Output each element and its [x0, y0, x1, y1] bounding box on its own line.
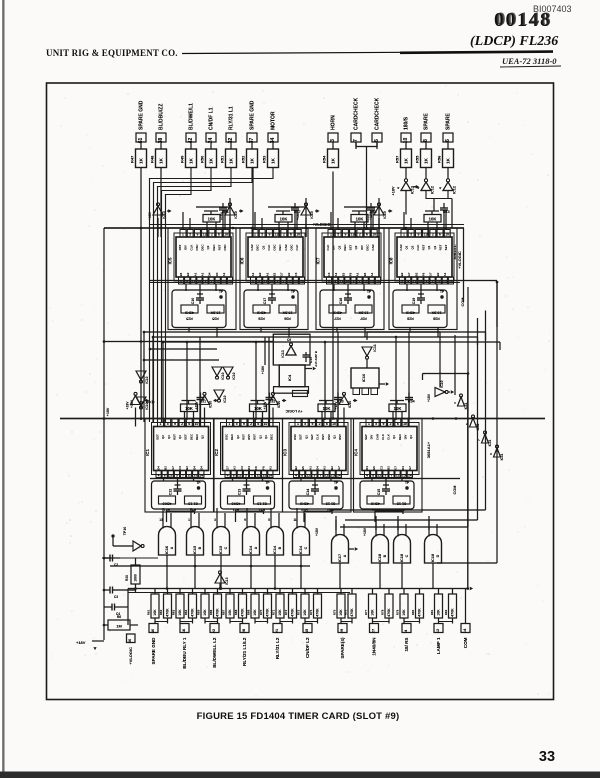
svg-text:OSC: OSC [273, 243, 277, 250]
svg-text:TP10: TP10 [123, 527, 127, 536]
svg-text:CLK: CLK [416, 244, 420, 251]
svg-text:Q2: Q2 [206, 245, 210, 249]
svg-text:IC10: IC10 [234, 211, 238, 219]
svg-text:13: 13 [351, 233, 355, 237]
svg-text:C13: C13 [309, 357, 313, 363]
card outline IC5 [168, 228, 236, 330]
svg-text:C12: C12 [169, 489, 173, 496]
svg-text:RST: RST [253, 434, 257, 440]
wire row2 RC to gates [166, 511, 168, 522]
IC IC7 top pins [328, 230, 334, 238]
wire IC8 to RC group [406, 284, 408, 291]
svg-text:R6: R6 [117, 615, 121, 619]
svg-text:R50: R50 [200, 155, 205, 163]
svg-text:DIV: DIV [332, 245, 336, 250]
resistor R51 1K [226, 149, 237, 168]
svg-text:22: 22 [211, 628, 216, 633]
wire top pin feeds row2 [160, 419, 162, 420]
svg-text:Q1: Q1 [258, 435, 262, 439]
resistor R28 43K6 [402, 305, 419, 313]
svg-text:R28: R28 [407, 317, 414, 321]
svg-text:81 13: 81 13 [326, 502, 336, 506]
svg-text:10.8K: 10.8K [431, 311, 441, 315]
svg-text:5: 5 [236, 422, 238, 426]
svg-text:R49: R49 [180, 155, 185, 163]
resistor R63 10K [176, 594, 184, 618]
svg-text:G7: G7 [337, 466, 341, 470]
svg-text:R64: R64 [184, 609, 188, 615]
gate IC17 A [332, 535, 349, 564]
inverter IC10 mid [223, 367, 233, 376]
svg-text:E5: E5 [301, 466, 305, 470]
wire bundle from top connectors [140, 168, 142, 421]
svg-text:CAR: CAR [371, 243, 375, 250]
svg-text:8: 8 [164, 473, 166, 477]
svg-text:7: 7 [251, 473, 253, 477]
wire CARDCHECK join [356, 142, 377, 147]
wire bundle row1 to row2 [144, 331, 486, 333]
svg-text:12: 12 [377, 473, 381, 477]
svg-text:1: 1 [297, 422, 299, 426]
svg-text:RST: RST [422, 244, 426, 250]
IC IC1 bottom pins [156, 471, 161, 478]
connector pin 40 SPARE GND [149, 624, 158, 633]
svg-text:10K: 10K [208, 217, 216, 222]
svg-text:14: 14 [408, 473, 412, 477]
capacitor C2 left [104, 557, 110, 559]
resistor R56 1K [443, 149, 454, 168]
svg-text:IC10: IC10 [145, 402, 149, 409]
svg-text:IC14: IC14 [298, 545, 303, 554]
resistor R35 10.8K [207, 305, 224, 313]
resistor R52 81 13 [254, 496, 271, 504]
svg-text:IC12: IC12 [453, 186, 457, 194]
capacitor C17a [294, 203, 296, 208]
svg-text:470K: 470K [241, 608, 245, 617]
svg-text:R62: R62 [159, 609, 163, 615]
svg-text:6: 6 [445, 139, 451, 142]
svg-text:180/S: 180/S [404, 116, 410, 130]
vertical feed wires to row1 inverters [229, 198, 231, 237]
svg-text:HORN: HORN [331, 115, 337, 130]
svg-text:BL/DWELL L2: BL/DWELL L2 [212, 637, 217, 668]
bus +VLOGIC [104, 227, 464, 229]
svg-text:R76: R76 [344, 609, 348, 615]
svg-text:43K6: 43K6 [300, 502, 309, 506]
svg-text:1K: 1K [423, 157, 428, 164]
resistor R53 1K [268, 149, 279, 168]
svg-text:10: 10 [445, 233, 449, 237]
svg-text:C9: C9 [287, 338, 291, 342]
bus +18V row2 [60, 418, 545, 420]
svg-text:A1: A1 [269, 466, 273, 470]
bus upper aux [150, 224, 464, 226]
svg-text:6: 6 [257, 422, 259, 426]
inverter IC13 mid [286, 346, 296, 355]
component group C12 [152, 481, 206, 509]
svg-text:15: 15 [402, 473, 406, 477]
svg-text:8: 8 [301, 473, 303, 477]
svg-text:15: 15 [262, 473, 266, 477]
svg-text:Q1: Q1 [409, 435, 413, 439]
svg-text:IC2: IC2 [214, 449, 219, 456]
svg-text:F6: F6 [261, 466, 265, 470]
svg-text:C3: C3 [240, 466, 244, 470]
component group C15 [360, 481, 414, 509]
svg-text:5: 5 [410, 233, 412, 237]
junction dots [160, 227, 163, 230]
svg-text:14: 14 [268, 473, 272, 477]
svg-text:IC4: IC4 [354, 449, 359, 456]
scan edge bottom [0, 772, 600, 778]
IC IC7 [322, 233, 381, 281]
gate IC15 B [187, 527, 204, 556]
svg-text:1K: 1K [228, 157, 233, 164]
svg-text:5: 5 [261, 233, 263, 237]
connector pin 14 COM [461, 624, 470, 633]
resistor R75 10K [337, 594, 345, 618]
wire inverter outputs join [426, 191, 452, 199]
svg-text:R81: R81 [430, 609, 434, 615]
svg-text:1: 1 [368, 422, 370, 426]
svg-text:14: 14 [462, 628, 467, 633]
svg-text:+18V: +18V [220, 211, 224, 220]
svg-text:G7: G7 [408, 466, 412, 470]
svg-text:BL/DWE/L1: BL/DWE/L1 [189, 103, 195, 130]
svg-text:IC18: IC18 [430, 553, 435, 562]
svg-text:R54: R54 [322, 155, 327, 163]
svg-text:6: 6 [366, 233, 368, 237]
IC IC4 [360, 423, 419, 475]
svg-text:A1: A1 [193, 272, 197, 276]
svg-text:1K: 1K [208, 157, 213, 164]
svg-text:SPARE(4): SPARE(4) [340, 637, 345, 659]
resistor R65 10K [201, 594, 209, 618]
svg-text:C13: C13 [238, 489, 242, 496]
svg-text:A: A [343, 554, 347, 557]
svg-text:IC6: IC6 [240, 257, 245, 264]
svg-text:7: 7 [182, 473, 184, 477]
svg-text:1: 1 [229, 422, 231, 426]
capacitor C13 mid [305, 352, 307, 355]
svg-text:CAR: CAR [284, 243, 288, 250]
svg-text:SPARE: SPARE [446, 112, 452, 130]
svg-text:18/ RS: 18/ RS [404, 638, 409, 652]
svg-text:A1: A1 [308, 466, 312, 470]
svg-text:B2: B2 [258, 272, 262, 276]
svg-text:DIV: DIV [360, 245, 364, 250]
svg-text:Q2: Q2 [201, 435, 205, 439]
resistor R13 10K [424, 215, 441, 223]
resistor R43 43K6 [296, 496, 313, 504]
svg-text:C10: C10 [191, 298, 195, 305]
svg-text:B: B [198, 546, 202, 549]
capacitor C13a [269, 393, 271, 398]
svg-text:IC4: IC4 [287, 374, 292, 381]
svg-text:11: 11 [293, 518, 297, 522]
svg-text:B2: B2 [400, 272, 404, 276]
svg-text:2: 2 [283, 233, 285, 237]
inverter IC10 mid [136, 371, 146, 380]
resistor R38 10.8K [428, 305, 445, 313]
svg-text:SET: SET [444, 244, 448, 250]
svg-text:R80: R80 [411, 609, 415, 615]
svg-text:R25: R25 [186, 317, 193, 321]
svg-text:6: 6 [188, 422, 190, 426]
resistor R33 10K [318, 404, 335, 412]
svg-text:10K: 10K [303, 609, 307, 616]
svg-text:DIV: DIV [370, 435, 374, 440]
svg-text:470K: 470K [350, 608, 354, 617]
bus bottom [128, 588, 468, 590]
svg-text:E5: E5 [179, 272, 183, 276]
svg-text:5: 5 [189, 233, 191, 237]
svg-text:10K: 10K [356, 217, 364, 222]
svg-text:C3: C3 [379, 466, 383, 470]
capacitor C18 [345, 293, 351, 295]
IC IC8 [395, 233, 454, 281]
svg-text:10K: 10K [278, 609, 282, 616]
resistor R66 470K [214, 594, 222, 618]
svg-text:RST: RST [338, 434, 342, 440]
svg-text:43K6: 43K6 [371, 502, 380, 506]
svg-text:DEC: DEC [189, 433, 193, 440]
IC10 pins [353, 388, 360, 395]
svg-text:Q1: Q1 [427, 245, 431, 249]
header rule [182, 52, 553, 54]
svg-text:1N40/8N: 1N40/8N [372, 637, 377, 656]
wire HORN to middle section [332, 172, 334, 419]
IC IC4 top pins [366, 419, 372, 427]
svg-text:E5: E5 [363, 272, 367, 276]
svg-text:10K: 10K [178, 609, 182, 616]
svg-text:D4: D4 [401, 466, 405, 470]
svg-text:6: 6 [290, 233, 292, 237]
capacitor C3 left [104, 589, 110, 591]
capacitor C18a [370, 203, 372, 208]
svg-text:1K: 1K [188, 157, 193, 164]
resistor R31 10K [181, 404, 198, 412]
svg-text:81 13: 81 13 [188, 502, 198, 506]
svg-text:2: 2 [181, 422, 183, 426]
svg-text:F6: F6 [254, 466, 258, 470]
svg-text:RST: RST [217, 244, 221, 250]
svg-text:8: 8 [423, 139, 429, 142]
resistor R37 10.8K [355, 305, 372, 313]
IC IC3 bottom pins [294, 471, 299, 478]
svg-text:R52: R52 [241, 155, 246, 163]
svg-text:3: 3 [176, 473, 178, 477]
svg-text:4: 4 [439, 187, 443, 189]
resistor R26 43K6 [253, 305, 270, 313]
svg-text:10K: 10K [185, 406, 193, 411]
svg-text:OSC: OSC [225, 433, 229, 440]
svg-text:A: A [254, 546, 258, 549]
svg-text:13: 13 [159, 518, 163, 522]
capacitor C17 [269, 293, 275, 295]
svg-text:IC14: IC14 [248, 545, 253, 554]
resistor R48 1K [156, 149, 167, 168]
svg-text:1: 1 [188, 518, 190, 522]
svg-text:DIV: DIV [403, 435, 407, 440]
svg-text:9: 9 [244, 518, 246, 522]
svg-text:B2: B2 [414, 272, 418, 276]
svg-text:UNIT RIG & EQUIPMENT CO.: UNIT RIG & EQUIPMENT CO. [46, 48, 178, 58]
svg-text:BL/DBU/ZZ: BL/DBU/ZZ [159, 104, 165, 130]
svg-text:B2: B2 [294, 466, 298, 470]
svg-text:5: 5 [337, 233, 339, 237]
svg-text:43K6: 43K6 [406, 311, 415, 315]
svg-text:R38: R38 [433, 317, 440, 321]
gate IC18 D [425, 535, 442, 564]
IC IC4 bottom pins [365, 471, 370, 478]
capacitor C19a [443, 203, 445, 208]
resistor R76 470K [348, 594, 356, 618]
svg-text:RLY/21 L1/L2: RLY/21 L1/L2 [242, 637, 247, 666]
svg-text:+18V: +18V [334, 401, 338, 410]
component group C10 [172, 290, 226, 328]
svg-text:9: 9 [382, 422, 384, 426]
svg-text:B: B [383, 554, 387, 557]
svg-text:IC10: IC10 [310, 211, 314, 219]
svg-text:3081A1-: 3081A1- [452, 244, 457, 260]
svg-text:Q1: Q1 [392, 435, 396, 439]
svg-text:+18V: +18V [148, 211, 152, 220]
svg-text:14: 14 [337, 473, 341, 477]
card outline IC4 [354, 419, 423, 513]
svg-text:Q2: Q2 [236, 435, 240, 439]
resistor R81 10K [435, 594, 443, 618]
svg-text:DEC: DEC [398, 433, 402, 440]
resistor R44 43K6 [367, 496, 384, 504]
svg-text:DEC: DEC [256, 244, 260, 251]
svg-text:Q1: Q1 [405, 245, 409, 249]
capacitor C12 [175, 484, 181, 486]
svg-text:B2: B2 [387, 466, 391, 470]
connector pin 29 SPARE(4) [338, 624, 347, 633]
svg-text:DEC: DEC [270, 433, 274, 440]
connector pin 16 BL/DBU RLY 1 [180, 624, 189, 633]
wire IC6 to RC group [257, 284, 259, 291]
test point TP C12 [197, 486, 200, 489]
svg-text:4: 4 [158, 473, 160, 477]
scan edge left [0, 0, 5, 778]
svg-text:10K: 10K [280, 217, 288, 222]
capacitor C12a [200, 393, 202, 398]
svg-text:8: 8 [233, 473, 235, 477]
svg-text:R66: R66 [209, 609, 213, 615]
svg-text:IC1: IC1 [145, 449, 150, 456]
svg-text:Q2: Q2 [261, 245, 265, 249]
svg-text:33: 33 [539, 749, 555, 765]
test point TP C19 [440, 295, 443, 298]
svg-text:10K: 10K [437, 609, 441, 616]
svg-text:10: 10 [264, 422, 268, 426]
svg-text:21: 21 [274, 628, 279, 633]
inverter IC10 mid [214, 390, 224, 399]
svg-text:IC11: IC11 [488, 439, 492, 446]
resistor R79 10K [400, 594, 408, 618]
inverter IC11 B [470, 418, 477, 427]
svg-text:DEC: DEC [343, 244, 347, 251]
card outline IC1 [145, 419, 214, 513]
inverter IC13 [405, 168, 407, 179]
svg-text:5: 5 [167, 422, 169, 426]
svg-text:COM: COM [453, 486, 457, 495]
svg-text:1K: 1K [138, 157, 143, 164]
svg-text:R74: R74 [309, 609, 313, 615]
inverter IC11 D [494, 448, 501, 457]
bus COM row1 [150, 280, 497, 282]
capacitor C4 left [104, 606, 112, 608]
inverter IC10 [301, 206, 311, 215]
svg-text:13: 13 [203, 233, 207, 237]
svg-text:A1: A1 [356, 272, 360, 276]
resistor R47 1K [136, 149, 147, 168]
svg-text:Q2: Q2 [337, 245, 341, 249]
capacitor C15 [383, 484, 389, 486]
svg-text:IC11: IC11 [476, 423, 480, 430]
card outline IC3 [283, 419, 352, 513]
svg-text:CAR: CAR [399, 243, 403, 250]
inverter IC10 [339, 396, 349, 405]
svg-text:3: 3 [245, 473, 247, 477]
capacitor C19 [418, 293, 424, 295]
svg-text:10.8K: 10.8K [210, 311, 220, 315]
svg-text:B2: B2 [186, 272, 190, 276]
svg-text:+VLOGIC: +VLOGIC [312, 222, 331, 227]
svg-text:10: 10 [403, 422, 407, 426]
test point TP C10 [219, 295, 222, 298]
svg-text:+VLOGIC: +VLOGIC [457, 251, 462, 269]
svg-text:A1: A1 [265, 272, 269, 276]
svg-text:SET: SET [310, 434, 314, 440]
svg-text:IC5: IC5 [168, 257, 173, 264]
svg-text:SPARE GND: SPARE GND [250, 100, 256, 130]
svg-text:G7: G7 [280, 272, 284, 276]
resistor R73 10K [301, 594, 309, 618]
svg-text:470K: 470K [216, 608, 220, 617]
svg-text:43K6: 43K6 [185, 311, 194, 315]
svg-text:C18: C18 [339, 298, 343, 305]
resistor R34 10K [389, 404, 406, 412]
gate IC18 C [394, 535, 411, 564]
svg-text:2: 2 [211, 233, 213, 237]
svg-text:OSC: OSC [327, 433, 331, 440]
resistor R54 1K [328, 149, 339, 168]
svg-text:+18V: +18V [263, 401, 267, 410]
svg-text:G7: G7 [407, 272, 411, 276]
svg-text:10: 10 [332, 422, 336, 426]
component group C17 [244, 290, 298, 328]
svg-text:UEA-72 3118-0: UEA-72 3118-0 [502, 56, 557, 66]
svg-text:10: 10 [195, 422, 199, 426]
wire IC2 to RC group [232, 478, 234, 482]
svg-text:9: 9 [417, 233, 419, 237]
svg-text:RST: RST [241, 434, 245, 440]
svg-text:IC11: IC11 [464, 402, 468, 409]
svg-text:+18V: +18V [76, 640, 86, 645]
svg-text:10K: 10K [153, 609, 157, 616]
svg-text:IC10: IC10 [361, 373, 366, 382]
svg-text:10: 10 [296, 233, 300, 237]
resistor R72 470K [289, 594, 297, 618]
svg-text:R70: R70 [259, 609, 263, 615]
resistor R41 43K6 [159, 496, 176, 504]
resistor R51 81 13 [185, 496, 202, 504]
svg-text:5: 5 [304, 422, 306, 426]
svg-text:DEC: DEC [212, 244, 216, 251]
